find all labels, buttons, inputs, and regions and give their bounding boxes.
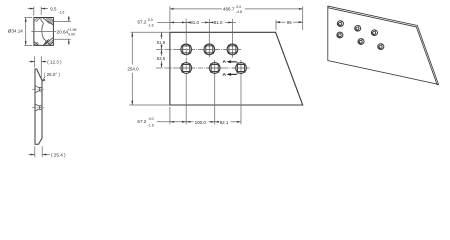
3D hole H4 (bottom row, col 1) (337, 32, 343, 38)
svg-text:100.0: 100.0 (195, 120, 207, 125)
svg-text:( 25.4 ): ( 25.4 ) (51, 152, 66, 157)
3D hole H5 (bottom row, col 2) (358, 39, 364, 45)
svg-text:0.0: 0.0 (148, 18, 153, 22)
254.0 vertical dimension (131, 32, 133, 64)
hole H3 (top row, col 3) (227, 44, 238, 55)
hole H6 (bottom row, col 3) (236, 63, 247, 74)
vertical centerlines / extension lines of holes (185, 19, 187, 43)
short horizontal centerline stubs through holes (178, 49, 250, 68)
svg-text:-4.8: -4.8 (236, 10, 242, 14)
svg-text:( 12.3 ): ( 12.3 ) (47, 60, 62, 65)
dim 20.64 +1.98/0.00 (right) (54, 16, 71, 45)
hole H4 (bottom row, col 1) (181, 63, 192, 74)
svg-text:57.2: 57.2 (137, 119, 146, 124)
svg-text:81.0: 81.0 (214, 20, 223, 25)
svg-text:95: 95 (287, 20, 293, 25)
svg-text:254.0: 254.0 (127, 66, 139, 71)
svg-text:61.9: 61.9 (157, 40, 166, 45)
svg-text:92.1: 92.1 (220, 120, 229, 125)
hole H1 (top row, col 1) countersunk square plow-bolt hole (181, 44, 192, 55)
dim Ø34.14 (left) (24, 18, 32, 46)
svg-text:9.5: 9.5 (50, 6, 57, 11)
svg-text:57.2: 57.2 (138, 19, 147, 24)
3D hole H6 (bottom row, col 3) (378, 44, 384, 50)
dim (12.3) (29, 56, 47, 78)
vertical chained dims 61.9 / 63.5 (161, 32, 163, 39)
top face outline (328, 6, 439, 84)
hole 2 profile (35, 104, 42, 111)
extension of top/bottom edges to the left for 254.0 dim (131, 31, 170, 33)
95 dimension (top right chamfer) (275, 20, 277, 30)
hatch lines (34, 18, 53, 45)
svg-text:81.0: 81.0 (190, 20, 199, 25)
thickness double lines (328, 8, 437, 85)
466.7 overall dimension (top) (169, 6, 171, 30)
dim 9.5 -1.6 (top) (28, 7, 48, 16)
svg-text:0.0: 0.0 (149, 117, 154, 121)
svg-text:0.00: 0.00 (68, 32, 75, 36)
3D hole H2 (top row, col 2) (355, 25, 361, 31)
3D hole H3 (top row, col 3) (371, 30, 377, 36)
svg-text:63.5: 63.5 (157, 56, 166, 61)
svg-text:Ø34.14: Ø34.14 (8, 29, 24, 34)
centerline of hole (31, 31, 56, 33)
plate outline (170, 32, 303, 105)
hole H2 (top row, col 2) (204, 44, 215, 55)
chained dims row (57.2 / 81.0 / 81.0) at y=21.9 (157, 21, 189, 23)
svg-text:0.0: 0.0 (236, 5, 241, 9)
svg-text:( 25.0° ): ( 25.0° ) (44, 72, 61, 77)
3D hole H1 (top row, col 1) (337, 21, 343, 27)
svg-text:-1.6: -1.6 (148, 23, 154, 27)
svg-text:-1.6: -1.6 (58, 10, 64, 14)
svg-text:A: A (223, 72, 227, 78)
svg-text:466.7: 466.7 (223, 7, 235, 12)
svg-text:-1.6: -1.6 (148, 124, 154, 128)
hole H5 (bottom row, col 2) (209, 63, 220, 74)
bottom chained dims 57.2 / 100.0 / 92.1 at y=119.5 (169, 107, 171, 125)
row centerlines (dash-dot) (156, 48, 241, 50)
dim (25.4) (28, 146, 50, 157)
hole 1 profile (35, 86, 42, 93)
svg-text:A: A (223, 59, 227, 65)
